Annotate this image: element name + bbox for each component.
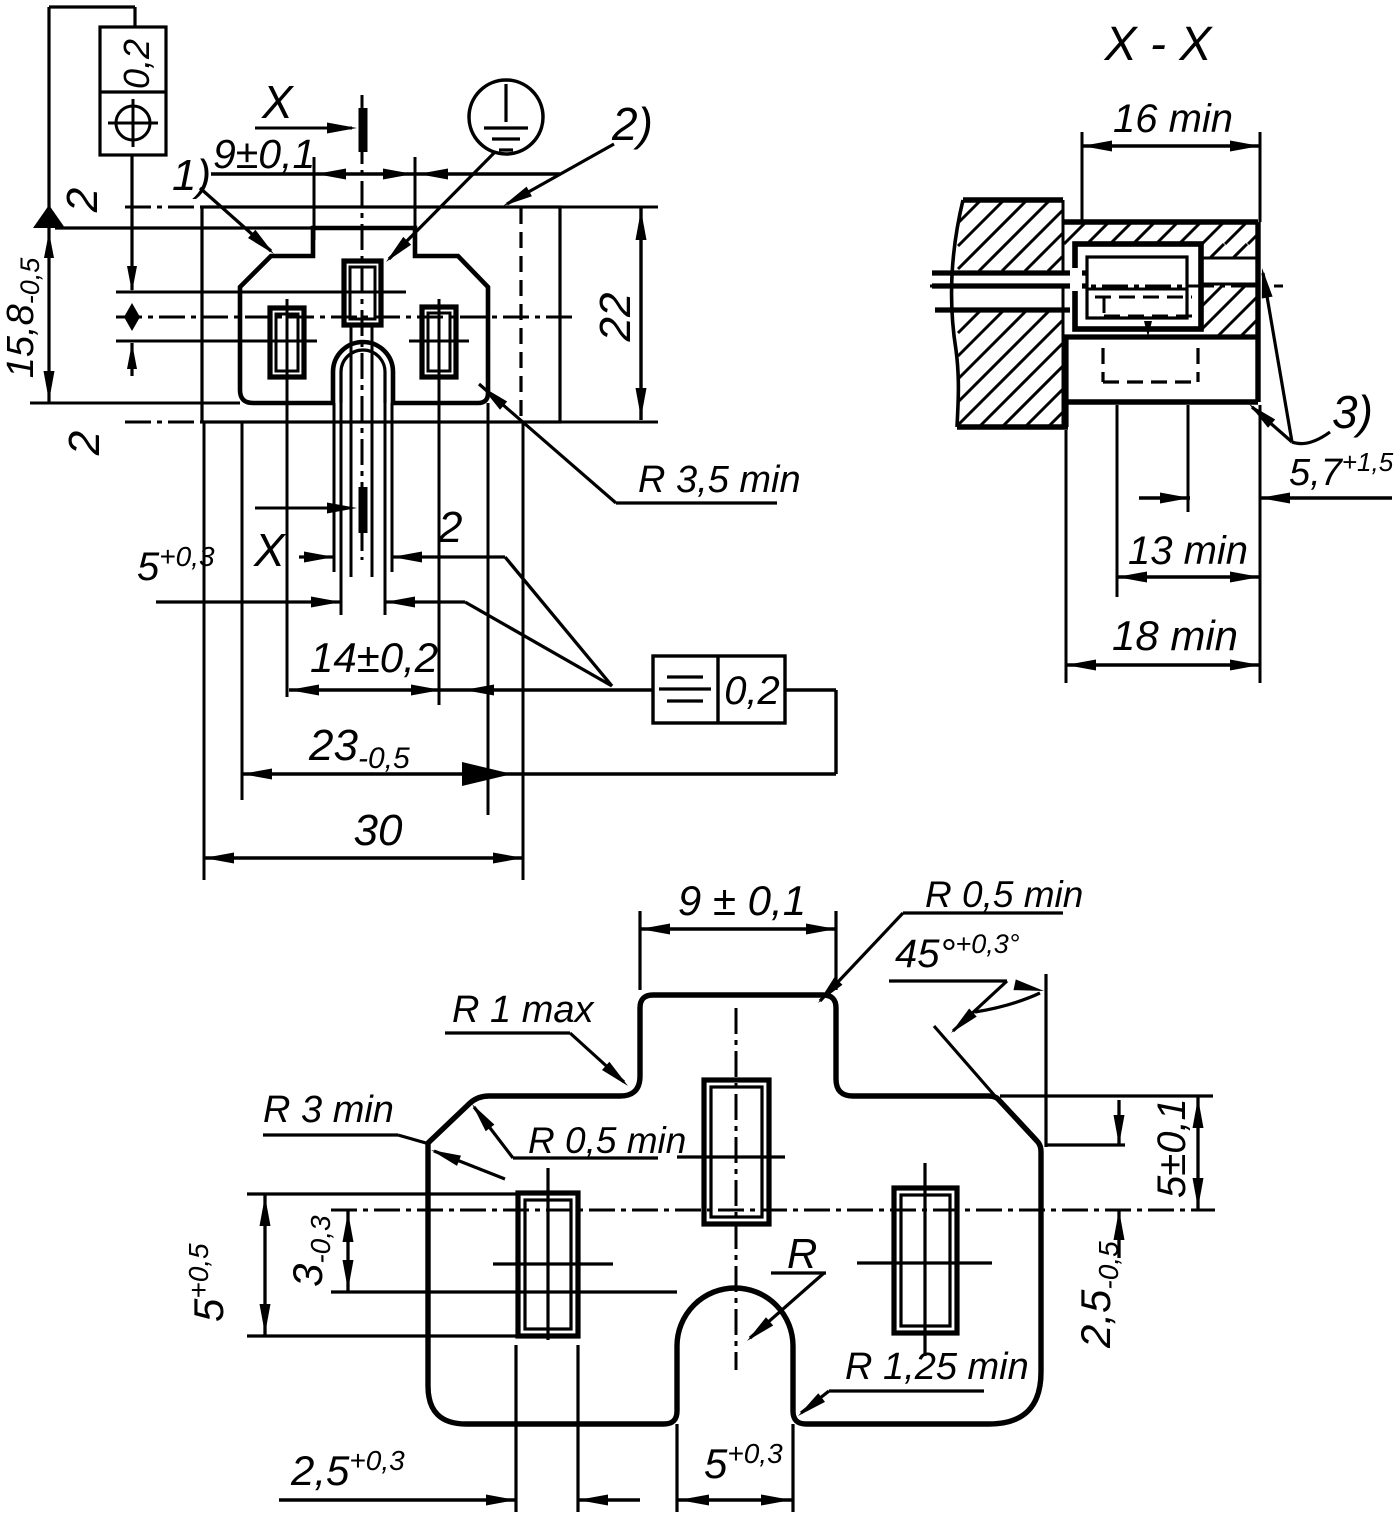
svg-text:2: 2 <box>60 431 109 456</box>
svg-text:18 min: 18 min <box>1112 612 1238 659</box>
svg-text:3): 3) <box>1332 386 1373 438</box>
svg-text:R 3,5 min: R 3,5 min <box>638 459 801 501</box>
svg-text:X - X: X - X <box>1104 18 1214 71</box>
svg-text:X: X <box>261 76 295 128</box>
svg-text:16 min: 16 min <box>1113 97 1233 141</box>
svg-text:R 1,25 min: R 1,25 min <box>845 1346 1029 1388</box>
svg-text:13 min: 13 min <box>1128 529 1248 573</box>
svg-text:9±0,1: 9±0,1 <box>213 131 315 177</box>
svg-text:5±0,1: 5±0,1 <box>1150 1098 1194 1198</box>
svg-text:2: 2 <box>437 503 462 552</box>
svg-text:0,2: 0,2 <box>724 669 780 713</box>
svg-text:R 0,5 min: R 0,5 min <box>528 1120 686 1161</box>
svg-text:0,2: 0,2 <box>116 39 157 89</box>
svg-text:R 0,5 min: R 0,5 min <box>925 874 1083 915</box>
svg-text:R: R <box>787 1230 817 1277</box>
svg-text:9 ± 0,1: 9 ± 0,1 <box>678 877 806 924</box>
svg-text:2: 2 <box>58 188 107 213</box>
svg-text:X: X <box>253 524 287 576</box>
svg-text:30: 30 <box>354 806 403 855</box>
svg-text:22: 22 <box>591 293 640 343</box>
svg-text:R 3 min: R 3 min <box>263 1089 394 1131</box>
svg-text:R 1 max: R 1 max <box>452 989 595 1031</box>
svg-text:2): 2) <box>611 98 653 150</box>
svg-text:14±0,2: 14±0,2 <box>310 634 438 681</box>
